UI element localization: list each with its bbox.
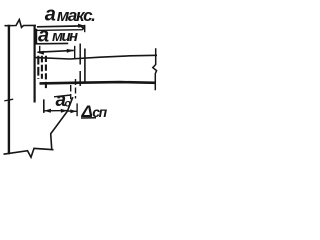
svg-text:а: а: [38, 24, 49, 46]
svg-text:о: о: [65, 98, 72, 110]
svg-text:мин: мин: [52, 28, 78, 45]
svg-text:макс.: макс.: [57, 6, 96, 25]
svg-text:Δ: Δ: [81, 102, 93, 121]
svg-text:сп: сп: [92, 104, 107, 120]
svg-text:а: а: [45, 4, 56, 26]
